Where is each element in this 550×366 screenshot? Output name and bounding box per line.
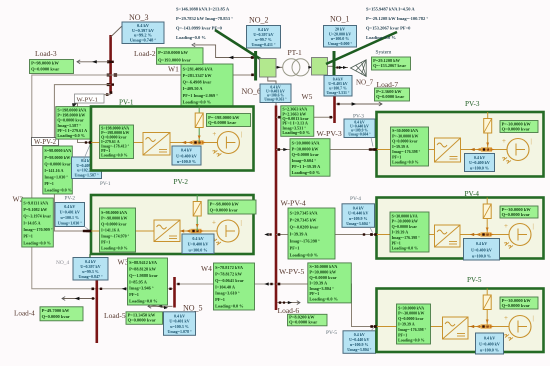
- svg-text:Q=-153.2067 kvar: Q=-153.2067 kvar: [373, 63, 406, 68]
- svg-text:Q=-6.4908 kvar: Q=-6.4908 kvar: [183, 80, 212, 85]
- svg-text:W-PV-3: W-PV-3: [317, 129, 342, 138]
- svg-text:u=100.1 %: u=100.1 %: [60, 215, 79, 220]
- svg-text:NO_2: NO_2: [249, 16, 269, 25]
- bus NO_1: [324, 15, 357, 76]
- svg-text:U=0.400 kV: U=0.400 kV: [176, 153, 197, 158]
- svg-text:NO_4: NO_4: [56, 260, 69, 266]
- svg-text:|: |: [533, 316, 534, 322]
- svg-text:NO_5: NO_5: [183, 304, 203, 313]
- svg-text:P=98.0000 kW: P=98.0000 kW: [44, 155, 71, 160]
- svg-text:PF=1 Imag=2.069 °: PF=1 Imag=2.069 °: [183, 93, 219, 98]
- svg-text:I=39.39 A: I=39.39 A: [290, 231, 309, 236]
- inverter PV-2 dc-ac: [154, 220, 180, 242]
- pv array PV-2 panel: [193, 202, 201, 217]
- pv source PV-3 circle: [502, 137, 532, 164]
- load Load-5: [104, 304, 173, 324]
- svg-text:S=78.8172 kVA: S=78.8172 kVA: [215, 265, 244, 270]
- wire PV-2 internal ac link: [85, 195, 217, 233]
- svg-text:S=9.8131 kVA: S=9.8131 kVA: [23, 200, 48, 205]
- svg-text:Q=0.0000 kvar: Q=0.0000 kvar: [101, 222, 127, 227]
- svg-text:Imag=-174.970 °: Imag=-174.970 °: [101, 234, 130, 239]
- inverter PV-1 dc-ac: [143, 133, 170, 156]
- svg-text:Q=0.0000 kvar: Q=0.0000 kvar: [502, 126, 530, 131]
- svg-text:Q=193.0000 kvar: Q=193.0000 kvar: [158, 57, 191, 62]
- svg-text:Imag=-176.398 °: Imag=-176.398 °: [398, 327, 427, 332]
- svg-text:PF=1: PF=1: [215, 297, 225, 302]
- svg-text:Loading=0.0 %: Loading=0.0 %: [57, 133, 84, 138]
- svg-text:Umag=0.411 °: Umag=0.411 °: [252, 42, 276, 47]
- svg-text:Q=0.0000 kvar: Q=0.0000 kvar: [31, 67, 59, 72]
- svg-text:PV-3: PV-3: [465, 100, 480, 108]
- svg-text:U=0.400 kV: U=0.400 kV: [471, 247, 492, 252]
- cable W1: [111, 64, 255, 106]
- svg-text:Q=0.0000 kvar: Q=0.0000 kvar: [398, 316, 424, 321]
- svg-text:P=-30.0000 kW: P=-30.0000 kW: [392, 133, 418, 138]
- svg-text:PF=1: PF=1: [398, 332, 407, 337]
- svg-text:Loading=0.0 %: Loading=0.0 %: [309, 297, 337, 302]
- annotation NO_3 bus voltage: [111, 13, 164, 44]
- svg-text:Loading=0.0 %: Loading=0.0 %: [183, 99, 211, 104]
- svg-text:I=14.05 A: I=14.05 A: [23, 220, 40, 225]
- svg-text:P=29.7832 kW Imag=78.853 °: P=29.7832 kW Imag=78.853 °: [176, 16, 233, 21]
- svg-text:P=98.0000 kW: P=98.0000 kW: [31, 61, 59, 66]
- cable W-PV-4: [264, 199, 376, 260]
- svg-text:Loading=0.0 %: Loading=0.0 %: [215, 303, 243, 308]
- pv array PV-4 panel: [483, 204, 491, 219]
- svg-text:S=281.4096 kVA: S=281.4096 kVA: [183, 66, 214, 71]
- svg-text:Q=0.0000 kvar: Q=0.0000 kvar: [292, 152, 319, 157]
- svg-text:0.4 kV: 0.4 kV: [181, 148, 192, 153]
- svg-text:Imag=3.610 °: Imag=3.610 °: [215, 291, 240, 296]
- annotation PV-2 terminal voltage: [55, 196, 90, 231]
- svg-text:Loading=0.0 %: Loading=0.0 %: [23, 240, 50, 245]
- bus NO_5: [164, 277, 203, 335]
- svg-text:PV-4: PV-4: [350, 196, 361, 202]
- svg-text:Q=-0.0209 kvar: Q=-0.0209 kvar: [290, 224, 319, 229]
- load Load-3: [30, 49, 112, 74]
- svg-text:+: +: [504, 314, 508, 322]
- svg-text:W1: W1: [168, 65, 179, 74]
- svg-text:P=250.0000 kW: P=250.0000 kW: [158, 50, 188, 55]
- svg-text:Loading=0.0 %: Loading=0.0 %: [392, 160, 419, 165]
- svg-text:Q=0.0000 kvar: Q=0.0000 kvar: [392, 224, 418, 229]
- svg-text:PF=1: PF=1: [392, 154, 401, 159]
- annotation PV-2 array output: [208, 200, 256, 214]
- svg-text:Loading=0.0 %: Loading=0.0 %: [290, 252, 318, 257]
- svg-text:I=39.39 A: I=39.39 A: [398, 322, 415, 327]
- svg-text:S=30.0000 kVA: S=30.0000 kVA: [392, 128, 418, 133]
- svg-text:u=100.0 %: u=100.0 %: [472, 254, 491, 259]
- svg-text:Umag=0.000 °: Umag=0.000 °: [328, 41, 353, 46]
- svg-text:|: |: [531, 139, 532, 145]
- pv unit PV-5 enclosure: [377, 276, 544, 352]
- svg-text:I=141.16 A: I=141.16 A: [44, 168, 63, 173]
- svg-text:P=-98.0000 kW: P=-98.0000 kW: [210, 202, 240, 207]
- wire PV-4 internal ac link: [370, 198, 509, 237]
- wire PV-3 internal ac link: [370, 112, 507, 152]
- svg-text:Umag=3.804 °: Umag=3.804 °: [347, 347, 372, 352]
- cable W5: [276, 92, 333, 136]
- svg-text:W-PV-5: W-PV-5: [279, 267, 304, 276]
- svg-text:W5: W5: [302, 92, 313, 101]
- svg-text:u=100.0 %: u=100.0 %: [177, 159, 196, 164]
- svg-text:Loading=0.0 %: Loading=0.0 %: [392, 246, 419, 251]
- svg-text:P=29.1208 kW: P=29.1208 kW: [373, 58, 401, 63]
- svg-text:P=78.8172 kW: P=78.8172 kW: [215, 271, 243, 276]
- annotation PV-3 inverter results: [391, 127, 429, 166]
- svg-text:Q=-1.9888 kvar: Q=-1.9888 kvar: [129, 273, 158, 278]
- pv array PV-3 panel: [484, 119, 492, 134]
- annotation feeder flow right: [326, 6, 428, 64]
- svg-text:u=100.0 %: u=100.0 %: [480, 348, 499, 353]
- inverter PV-4 dc-ac: [435, 225, 461, 247]
- svg-text:P=-198.0000 kW: P=-198.0000 kW: [208, 115, 240, 120]
- svg-text:Umag=0.363 °: Umag=0.363 °: [264, 98, 287, 102]
- svg-text:Imag=-176.398 °: Imag=-176.398 °: [392, 235, 421, 240]
- svg-text:PF=1: PF=1: [309, 291, 319, 296]
- svg-text:PV-3: PV-3: [353, 113, 364, 119]
- svg-text:Umag=0.847 °: Umag=0.847 °: [78, 274, 103, 279]
- utility System: [336, 50, 411, 77]
- annotation PV-1 terminal voltage: [72, 143, 111, 188]
- svg-text:Q=153.2067 kvar PF=0: Q=153.2067 kvar PF=0: [366, 26, 411, 31]
- annotation PV-1 inverter results: [100, 125, 134, 159]
- svg-text:S=20.7345 kVA: S=20.7345 kVA: [290, 211, 319, 216]
- svg-text:W4: W4: [201, 264, 212, 273]
- annotation PV-4 terminal voltage: [342, 196, 375, 233]
- wire PV-5 internal ac link: [370, 289, 509, 329]
- svg-text:Q=0.0000 kvar: Q=0.0000 kvar: [376, 94, 404, 99]
- cable W-PV-1: [56, 94, 111, 143]
- pv source PV-4 circle: [504, 222, 534, 249]
- svg-text:+: +: [212, 219, 216, 227]
- svg-text:Q=-3.1974 kvar: Q=-3.1974 kvar: [23, 214, 51, 219]
- load Load-4: [14, 297, 95, 321]
- pv source PV-2 circle: [212, 219, 242, 246]
- bus NO_7: [324, 76, 374, 124]
- annotation PV-4 array output: [500, 206, 538, 218]
- svg-text:Imag=-170.909 °: Imag=-170.909 °: [23, 227, 52, 232]
- svg-text:0.4 kV: 0.4 kV: [174, 313, 185, 318]
- pv unit PV-4 enclosure: [377, 190, 544, 259]
- svg-text:S=155.9487 kVA I=4.50 A: S=155.9487 kVA I=4.50 A: [366, 6, 415, 11]
- svg-text:P=30.0000 kW: P=30.0000 kW: [309, 270, 337, 275]
- svg-text:Loading=0.0 %: Loading=0.0 %: [101, 152, 128, 157]
- svg-text:P=88.8128 kW: P=88.8128 kW: [129, 266, 157, 271]
- svg-text:I=39.39 A: I=39.39 A: [392, 230, 409, 235]
- svg-text:U=0.400 kV: U=0.400 kV: [188, 242, 209, 247]
- svg-text:S=30.0000 kVA: S=30.0000 kVA: [398, 305, 424, 310]
- annotation PV-3 dc bus voltage: [465, 154, 495, 172]
- svg-text:S=30.0000 kVA: S=30.0000 kVA: [292, 140, 321, 145]
- svg-text:Umag=0.748 °: Umag=0.748 °: [130, 37, 156, 42]
- svg-text:U=0.440 kV: U=0.440 kV: [348, 211, 368, 216]
- svg-text:S=146.1088 kVA I=213.85 A: S=146.1088 kVA I=213.85 A: [176, 6, 230, 11]
- cable W4: [176, 263, 275, 310]
- svg-text:+: +: [502, 137, 506, 145]
- svg-text:+: +: [504, 222, 508, 230]
- pv unit PV-2 enclosure: [91, 178, 254, 254]
- svg-text:Q=0.0000 kvar: Q=0.0000 kvar: [309, 275, 336, 280]
- annotation PV-5 inverter results: [397, 304, 431, 344]
- svg-text:P=-30.0000 kW: P=-30.0000 kW: [392, 219, 418, 224]
- cable W2: [13, 75, 111, 290]
- breaker CB-HV: [312, 58, 333, 76]
- svg-text:0.4 kV: 0.4 kV: [192, 236, 203, 241]
- transformer PT-1: [276, 48, 312, 76]
- svg-text:U=0.401 kV: U=0.401 kV: [169, 319, 189, 324]
- svg-text:PV-5: PV-5: [467, 276, 482, 284]
- bus NO_6: [242, 77, 292, 310]
- pv unit PV-1 enclosure: [91, 99, 254, 171]
- pv array PV-1 panel: [195, 113, 203, 128]
- svg-text:NO_1: NO_1: [330, 15, 350, 24]
- svg-text:PV-1: PV-1: [119, 99, 134, 107]
- bus NO_2: [247, 16, 281, 81]
- svg-text:Umag=3.604 °: Umag=3.604 °: [346, 221, 371, 226]
- svg-text:Q=0.0000 kvar: Q=0.0000 kvar: [208, 120, 236, 125]
- svg-text:S=88.9412 kVA: S=88.9412 kVA: [129, 260, 158, 265]
- cable W-PV-5: [276, 263, 377, 328]
- annotation feeder flow left: [176, 6, 269, 64]
- svg-text:Imag=3.804 °: Imag=3.804 °: [309, 286, 334, 291]
- svg-text:Load-5: Load-5: [104, 311, 126, 320]
- svg-text:U=0.401 kV: U=0.401 kV: [60, 210, 80, 215]
- svg-text:I=409.50 A: I=409.50 A: [183, 86, 204, 91]
- inverter PV-5 dc-ac: [443, 317, 469, 339]
- annotation PV-3 terminal voltage: [344, 113, 375, 146]
- svg-text:0.4 kV: 0.4 kV: [484, 335, 495, 340]
- svg-text:NO_6: NO_6: [242, 87, 262, 96]
- svg-text:Umag=0.604 °: Umag=0.604 °: [348, 133, 371, 137]
- svg-text:Umag=1.078 °: Umag=1.078 °: [167, 329, 192, 334]
- svg-text:Q=0.0000 kvar: Q=0.0000 kvar: [392, 139, 418, 144]
- pv source PV-1 circle: [212, 130, 242, 157]
- svg-text:U=0.403 kV: U=0.403 kV: [328, 82, 348, 86]
- svg-text:Load-2: Load-2: [134, 49, 156, 58]
- pv source PV-5 circle: [504, 314, 534, 341]
- svg-text:PF=1: PF=1: [392, 240, 401, 245]
- bus NO_3: [106, 35, 117, 96]
- bus NO_4: [56, 254, 108, 343]
- svg-text:W-PV-1: W-PV-1: [77, 96, 98, 103]
- svg-text:PV-5: PV-5: [326, 330, 337, 336]
- svg-text:Q=-0.0641 kvar: Q=-0.0641 kvar: [215, 278, 244, 283]
- svg-text:NO_3: NO_3: [129, 13, 149, 22]
- svg-text:Q=0.0000 kvar: Q=0.0000 kvar: [502, 212, 530, 217]
- cable W-PV-2: [32, 85, 111, 233]
- svg-text:PF=1: PF=1: [44, 181, 54, 186]
- svg-text:I=39.39 A: I=39.39 A: [309, 280, 328, 285]
- annotation PV-3 array output: [500, 121, 538, 133]
- svg-text:Loading=0.0 %: Loading=0.0 %: [292, 170, 320, 175]
- wire PV-1 internal ac link: [85, 107, 218, 145]
- svg-text:Imag=-176.398 °: Imag=-176.398 °: [392, 149, 421, 154]
- svg-text:I=141.16 A: I=141.16 A: [101, 228, 120, 233]
- svg-text:0.4 kV: 0.4 kV: [476, 241, 487, 246]
- svg-text:Loading=0.0 %: Loading=0.0 %: [44, 187, 71, 192]
- svg-text:|: |: [241, 132, 242, 138]
- svg-text:S=30.0000 kVA: S=30.0000 kVA: [309, 264, 338, 269]
- annotation PV-1 array output: [207, 114, 251, 127]
- svg-text:Umag=1.587 °: Umag=1.587 °: [74, 172, 99, 177]
- svg-text:PV-2: PV-2: [174, 178, 189, 186]
- svg-text:PF=1 I=39.39 A: PF=1 I=39.39 A: [292, 164, 322, 169]
- svg-text:Imag=-176.398 °: Imag=-176.398 °: [290, 238, 320, 243]
- svg-text:P=-29.1208 kW Imag=-100.782 °: P=-29.1208 kW Imag=-100.782 °: [366, 16, 428, 21]
- svg-text:Loading=0.0 %: Loading=0.0 %: [129, 298, 157, 303]
- svg-text:Umag=1.030 °: Umag=1.030 °: [58, 220, 83, 225]
- svg-text:P=2.3600 kW: P=2.3600 kW: [376, 89, 402, 94]
- annotation PV-2 dc bus voltage: [182, 234, 214, 254]
- annotation PV-4 dc bus voltage: [464, 239, 500, 261]
- svg-text:S=30.0000 kVA: S=30.0000 kVA: [392, 213, 418, 218]
- svg-text:Umag=3.531 °: Umag=3.531 °: [327, 91, 350, 95]
- annotation PV-2 inverter results: [100, 208, 136, 252]
- svg-text:S=98.0000 kVA: S=98.0000 kVA: [101, 210, 127, 215]
- annotation PV-5 array output: [500, 297, 538, 309]
- svg-text:Q=0.0000 kvar: Q=0.0000 kvar: [44, 161, 70, 166]
- pv array PV-5 panel: [483, 295, 491, 310]
- svg-text:W-PV-2: W-PV-2: [34, 139, 57, 146]
- cable W-PV-3: [276, 129, 377, 176]
- svg-text:Imag=3.946 °: Imag=3.946 °: [129, 286, 154, 291]
- annotation PV-1 dc bus voltage: [172, 146, 201, 165]
- svg-text:PF=1: PF=1: [101, 240, 110, 245]
- svg-text:P=281.3347 kW: P=281.3347 kW: [183, 73, 213, 78]
- svg-text:P=9.1082 kW: P=9.1082 kW: [23, 207, 48, 212]
- svg-text:Loading=0.0 %: Loading=0.0 %: [176, 35, 206, 40]
- svg-text:S=98.0000 kVA: S=98.0000 kVA: [44, 148, 71, 153]
- svg-text:PT-1: PT-1: [288, 48, 303, 57]
- svg-text:P=30.0000 kW: P=30.0000 kW: [292, 146, 320, 151]
- annotation PV-5 dc bus voltage: [476, 333, 504, 354]
- svg-text:P=49.7000 kW: P=49.7000 kW: [42, 308, 70, 313]
- svg-text:NO_7: NO_7: [356, 79, 374, 87]
- svg-text:0.4 kV: 0.4 kV: [353, 205, 364, 210]
- load Load-6: [277, 301, 327, 326]
- svg-text:W3: W3: [118, 258, 129, 267]
- svg-text:I=104.40 A: I=104.40 A: [215, 284, 236, 289]
- breaker CB-LV: [260, 59, 277, 78]
- svg-text:Loading=0.0 %: Loading=0.0 %: [366, 35, 396, 40]
- annotation PV-5 terminal voltage: [326, 328, 376, 353]
- svg-text:u=100.0 %: u=100.0 %: [189, 247, 208, 252]
- svg-text:PF=1: PF=1: [129, 292, 139, 297]
- cable W3: [99, 258, 174, 310]
- svg-text:P=-30.0000 kW: P=-30.0000 kW: [398, 311, 424, 316]
- svg-text:u=100.3 %: u=100.3 %: [170, 324, 189, 329]
- svg-text:Q=0.0000 kvar: Q=0.0000 kvar: [502, 303, 530, 308]
- svg-text:Loading=0.0 %: Loading=0.0 %: [101, 246, 128, 251]
- svg-text:System: System: [376, 50, 393, 56]
- svg-text:u=100.7 %: u=100.7 %: [329, 86, 347, 90]
- svg-text:I=39.39 A: I=39.39 A: [392, 144, 409, 149]
- svg-text:Load-3: Load-3: [35, 49, 57, 58]
- svg-text:I=85.95 A: I=85.95 A: [129, 279, 148, 284]
- svg-text:Q=0.0000 kvar: Q=0.0000 kvar: [42, 314, 70, 319]
- svg-text:|: |: [533, 224, 534, 230]
- inverter PV-3 dc-ac: [435, 138, 461, 162]
- svg-text:Imag=1.030 °: Imag=1.030 °: [44, 174, 68, 179]
- svg-text:Q=0.0000 kvar: Q=0.0000 kvar: [128, 318, 156, 323]
- svg-text:|: |: [241, 221, 242, 227]
- svg-text:PF=1: PF=1: [23, 234, 33, 239]
- svg-text:+: +: [212, 130, 216, 138]
- pv unit PV-3 enclosure: [377, 100, 544, 177]
- svg-text:PV-2: PV-2: [65, 196, 76, 202]
- load Load-7: [336, 80, 410, 106]
- svg-text:P=20.7345 kW: P=20.7345 kW: [290, 218, 318, 223]
- svg-text:P=-98.0000 kW: P=-98.0000 kW: [101, 216, 127, 221]
- svg-text:U=0.400 kV: U=0.400 kV: [479, 341, 500, 346]
- svg-text:Loading=0.0 %: Loading=0.0 %: [398, 338, 425, 343]
- svg-text:PV-1: PV-1: [100, 181, 111, 187]
- svg-text:W-PV-4: W-PV-4: [281, 199, 306, 208]
- svg-text:0.4 kV: 0.4 kV: [64, 204, 75, 209]
- svg-text:Load-4: Load-4: [14, 310, 35, 318]
- svg-text:PV-4: PV-4: [465, 190, 480, 198]
- svg-text:PF=1: PF=1: [290, 245, 300, 250]
- svg-text:u=100.0 %: u=100.0 %: [470, 165, 489, 170]
- svg-text:Loading=0.0 %: Loading=0.0 %: [282, 130, 309, 135]
- svg-text:u=109.9 %: u=109.9 %: [349, 216, 368, 221]
- annotation PV-4 inverter results: [390, 212, 429, 252]
- svg-text:Imag=0.604 °: Imag=0.604 °: [292, 158, 317, 163]
- svg-text:0.4 kV: 0.4 kV: [333, 77, 344, 81]
- svg-text:Q=-143.0999 kvar PF=0: Q=-143.0999 kvar PF=0: [176, 26, 223, 31]
- svg-text:Q=0.0000 kvar: Q=0.0000 kvar: [210, 208, 238, 213]
- svg-text:Q=0.0000 kvar: Q=0.0000 kvar: [289, 319, 317, 324]
- load Load-2: [134, 43, 254, 64]
